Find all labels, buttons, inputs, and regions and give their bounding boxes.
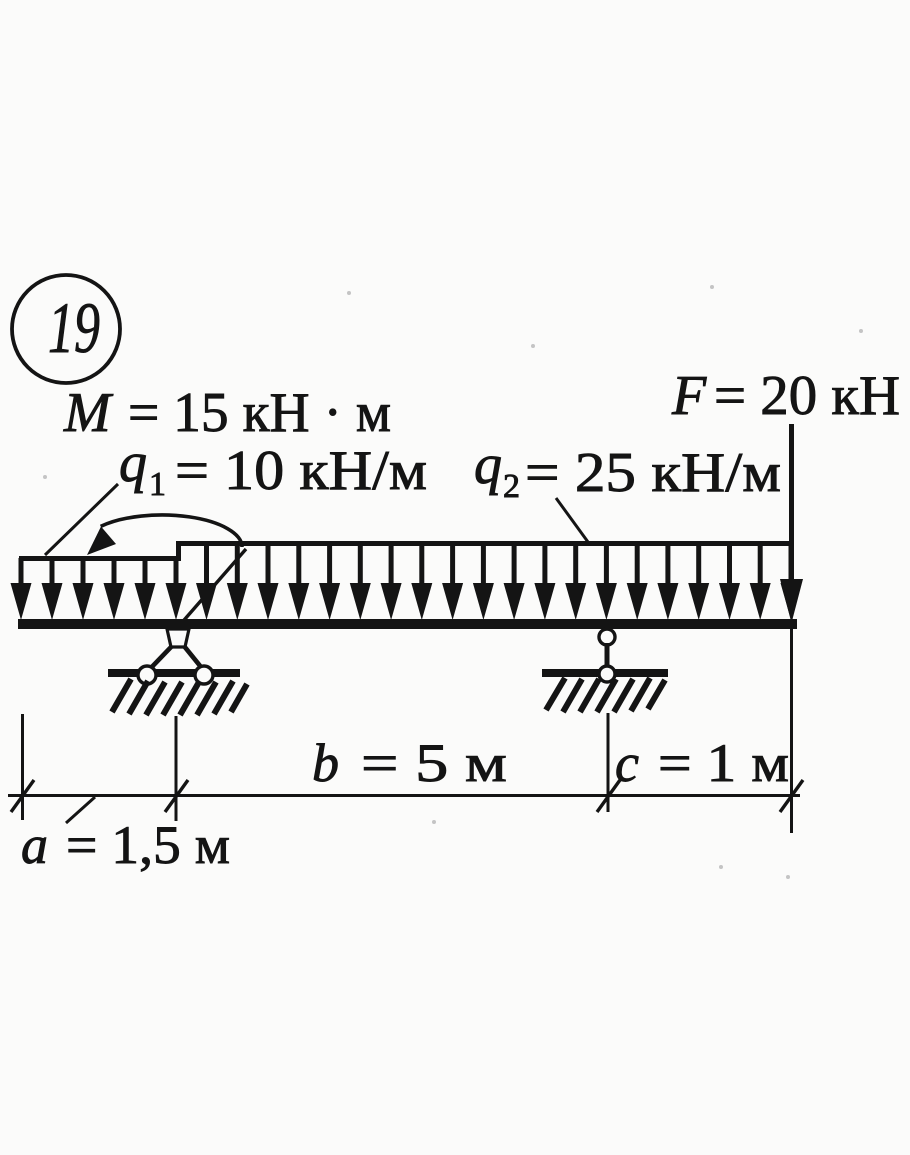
leader line from q1 label to left load block — [45, 484, 118, 555]
problem number circle 19 — [12, 275, 120, 383]
leader from label a to dimension line — [66, 797, 95, 823]
dimension tick at x=22 — [11, 780, 34, 812]
svg-text:1: 1 — [149, 466, 166, 503]
extension line below force F — [790, 629, 793, 833]
distributed load q2 left edge — [176, 541, 181, 561]
svg-text:c: c — [615, 733, 639, 793]
pin support A — [108, 629, 240, 684]
moment M curved arrow over left support — [87, 515, 246, 627]
label F = 20 kN — [671, 365, 900, 427]
dimension tick at x=791 — [780, 780, 803, 812]
force F vertical line — [789, 424, 794, 590]
distributed load q2 arrows — [196, 543, 802, 620]
svg-text:q: q — [474, 434, 502, 496]
svg-text:= 15 кН · м: = 15 кН · м — [128, 382, 391, 444]
svg-text:2: 2 — [503, 468, 520, 505]
svg-text:= 1 м: = 1 м — [658, 733, 789, 793]
svg-text:b: b — [312, 733, 339, 793]
svg-text:q: q — [119, 432, 147, 494]
svg-text:= 25 кН/м: = 25 кН/м — [525, 442, 781, 504]
dimension line — [8, 794, 800, 797]
roller support B — [542, 629, 668, 682]
svg-text:F: F — [671, 365, 707, 427]
beam — [18, 619, 797, 629]
svg-text:a: a — [21, 815, 48, 875]
svg-text:= 20 кН: = 20 кН — [714, 365, 900, 427]
force F arrowhead — [780, 579, 803, 623]
label q2 = 25 kN/m — [474, 434, 781, 505]
scan speckles — [43, 285, 863, 879]
dimension tick at x=608 — [597, 780, 620, 812]
label M = 15 kN*m — [63, 382, 391, 444]
svg-text:= 5 м: = 5 м — [361, 733, 507, 793]
svg-text:= 1,5 м: = 1,5 м — [66, 815, 230, 875]
label q1 = 10 kN/m — [119, 432, 427, 503]
extension line below pin support — [175, 716, 178, 821]
leader line from q2 label to load block — [556, 498, 588, 542]
pin support hatching — [112, 679, 247, 715]
distributed load q2 top line — [176, 541, 793, 546]
label b = 5 m — [312, 733, 507, 793]
svg-text:M: M — [63, 382, 114, 444]
distributed load q1 top line — [19, 556, 178, 561]
label c = 1 m — [615, 733, 789, 793]
label a = 1,5 m — [21, 815, 230, 875]
svg-text:19: 19 — [48, 288, 100, 368]
distributed load q1 arrows — [11, 558, 187, 620]
svg-text:= 10 кН/м: = 10 кН/м — [175, 440, 427, 502]
dimension tick at x=176 — [165, 780, 188, 812]
extension line at beam left end — [21, 714, 24, 820]
roller support hatching — [546, 678, 665, 712]
extension line below roller support — [607, 713, 610, 812]
